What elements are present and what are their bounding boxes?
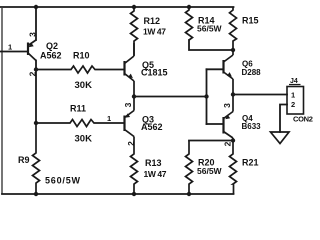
resistor R13 1W47 bbox=[131, 137, 138, 195]
svg-text:2: 2 bbox=[126, 141, 136, 146]
node driver output bbox=[132, 94, 136, 98]
node bottom rail / R13 bbox=[132, 192, 136, 196]
resistor R9 560/5W bbox=[33, 123, 40, 194]
wire CON2 pin2 to ground bbox=[280, 105, 287, 133]
node Q2 collector / R10 bbox=[34, 67, 38, 71]
node top rail / R12 bbox=[132, 5, 136, 9]
svg-text:56/5W: 56/5W bbox=[197, 166, 223, 176]
connector CON2 J4 bbox=[287, 85, 304, 115]
svg-text:1: 1 bbox=[291, 91, 295, 100]
svg-text:2: 2 bbox=[223, 141, 233, 146]
svg-text:R21: R21 bbox=[242, 158, 259, 168]
node top rail / Q2 emitter bbox=[34, 5, 38, 9]
wire driver output node to base bus bbox=[134, 96, 207, 98]
resistor R21 bbox=[230, 141, 237, 195]
wire R20 top to R21 node bbox=[189, 140, 233, 142]
node top rail / R14 bbox=[187, 5, 191, 9]
wire node to R11/R9 junction bbox=[35, 70, 37, 124]
svg-text:R10: R10 bbox=[73, 51, 90, 61]
node R11 / R9 bbox=[34, 121, 38, 125]
node bottom rail / R20 bbox=[187, 192, 191, 196]
wire Q2 collector to node bbox=[35, 61, 37, 70]
svg-text:2: 2 bbox=[28, 71, 38, 76]
ground bbox=[271, 132, 290, 144]
svg-text:1W 47: 1W 47 bbox=[144, 169, 167, 179]
svg-text:R15: R15 bbox=[242, 16, 259, 26]
node base bus bbox=[204, 94, 208, 98]
svg-text:J4: J4 bbox=[290, 78, 298, 85]
svg-text:1W 47: 1W 47 bbox=[143, 27, 166, 37]
node output emitters bbox=[231, 92, 235, 96]
wire Q2 base bbox=[0, 51, 27, 53]
transistor Q4 B633 (PNP) bbox=[224, 95, 234, 141]
node R15 / Q6 collector bbox=[231, 48, 235, 52]
svg-text:3: 3 bbox=[222, 103, 232, 108]
svg-text:R11: R11 bbox=[70, 104, 86, 114]
wire left edge vertical bbox=[1, 7, 3, 194]
transistor Q3 A562 (PNP) bbox=[125, 97, 135, 137]
svg-text:R9: R9 bbox=[18, 155, 30, 165]
wire output emitters node to CON2 pin1 bbox=[233, 94, 287, 96]
svg-text:560/5W: 560/5W bbox=[45, 176, 81, 186]
svg-text:R13: R13 bbox=[145, 158, 162, 168]
wire top rail bbox=[0, 6, 234, 8]
svg-text:30K: 30K bbox=[75, 80, 93, 91]
transistor Q5 C1815 (NPN) bbox=[125, 43, 135, 97]
svg-text:A562: A562 bbox=[40, 51, 62, 61]
svg-text:1: 1 bbox=[8, 43, 12, 52]
svg-text:56/5W: 56/5W bbox=[197, 24, 223, 34]
resistor R15 bbox=[230, 7, 237, 50]
resistor R14 56/5W bbox=[186, 7, 193, 40]
svg-text:1: 1 bbox=[107, 114, 111, 123]
svg-text:3: 3 bbox=[28, 32, 38, 37]
node Q4 collector / R20 / R21 bbox=[231, 138, 235, 142]
svg-text:D288: D288 bbox=[242, 68, 262, 77]
svg-text:30K: 30K bbox=[75, 134, 93, 145]
node bottom rail / R9 bbox=[34, 192, 38, 196]
transistor Q2 A562 (PNP) bbox=[28, 40, 36, 61]
wire Q6 base bbox=[207, 68, 224, 70]
svg-text:3: 3 bbox=[123, 102, 133, 107]
wire R14 bottom to R15 bottom bbox=[189, 40, 233, 50]
svg-text:B633: B633 bbox=[242, 122, 262, 131]
resistor R11 30K bbox=[36, 120, 124, 127]
resistor R20 56/5W bbox=[186, 141, 193, 195]
svg-text:C1815: C1815 bbox=[141, 68, 168, 78]
wire base bus vertical bbox=[206, 69, 208, 124]
svg-text:Q2: Q2 bbox=[46, 41, 58, 51]
wire Q4 base bbox=[207, 123, 224, 125]
svg-text:R12: R12 bbox=[144, 16, 161, 26]
svg-text:CON2: CON2 bbox=[293, 115, 313, 124]
resistor R12 1W47 bbox=[131, 7, 138, 56]
transistor Q6 D288 (NPN) bbox=[224, 50, 234, 95]
svg-text:2: 2 bbox=[291, 100, 295, 109]
resistor R10 30K bbox=[36, 66, 124, 73]
wire main left vertical upper (Q2 emitter to top rail) bbox=[35, 7, 37, 40]
svg-text:A562: A562 bbox=[141, 122, 163, 132]
wire bottom rail bbox=[2, 193, 234, 195]
